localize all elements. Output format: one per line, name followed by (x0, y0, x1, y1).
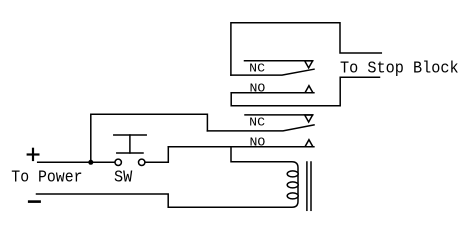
svg-text:To Stop Block: To Stop Block (340, 59, 459, 78)
svg-text:SW: SW (114, 168, 132, 187)
svg-text:To Power: To Power (11, 168, 82, 187)
switch SW pushbutton (114, 135, 146, 166)
contact set 1 movable arm (231, 69, 314, 75)
relay coil K1 (287, 162, 298, 208)
svg-text:NO: NO (250, 136, 266, 150)
wire + feed to switch (38, 161, 115, 163)
wire switch to lower NO line (145, 147, 168, 162)
contact set 2 NC line (245, 114, 313, 116)
contact set 1 NC line (245, 60, 313, 62)
wire coil top feed (231, 147, 289, 162)
contact set 1 NO line (231, 92, 314, 94)
svg-text:NC: NC (249, 116, 265, 130)
svg-text:NC: NC (249, 62, 265, 76)
contact set 2 NO triangle (305, 140, 313, 147)
contact set 1: common wire to stop block (top) (231, 23, 381, 75)
wire - feed to coil (37, 194, 290, 207)
contact set 2 NO line (168, 146, 314, 148)
coil core lines (306, 162, 308, 210)
contact set 2 NC triangle (305, 115, 313, 122)
wire riser from junction to lower contact feed (91, 114, 208, 162)
svg-text:NO: NO (250, 81, 266, 95)
contact set 2 movable arm (207, 125, 314, 131)
contact set 1 NC triangle (305, 61, 313, 68)
node - (power negative terminal) (29, 200, 39, 203)
junction dot (88, 160, 93, 165)
wire NO to stop block (bottom) (231, 77, 379, 105)
contact set 1 NO triangle (305, 86, 313, 93)
node + (power positive terminal) (28, 149, 39, 160)
